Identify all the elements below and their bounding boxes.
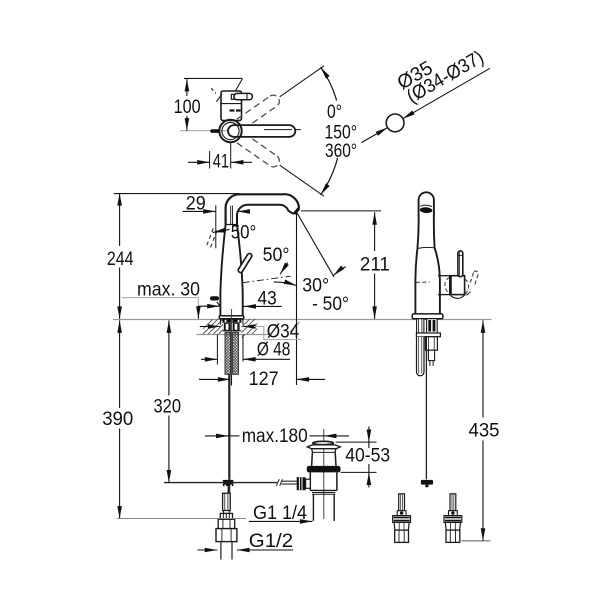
plan lever nub bbox=[231, 94, 234, 99]
plan body split line bbox=[221, 103, 242, 105]
side neck and body right edge bbox=[434, 215, 440, 314]
side ghost lever dashed bbox=[470, 271, 478, 284]
dim G1/2 right line bbox=[237, 549, 293, 551]
leader 50 deg second bbox=[280, 263, 288, 275]
dim 40-53 extension top bbox=[336, 441, 377, 443]
plan faucet body bbox=[221, 91, 242, 121]
dim 211 line upper bbox=[374, 212, 376, 251]
dim 40-53 top arrow bbox=[368, 427, 370, 443]
drain tailpipe bbox=[312, 494, 314, 521]
plan lever handle bbox=[234, 93, 252, 99]
dim Ø34 extension lines bbox=[219, 319, 221, 324]
dim 41 left line bbox=[188, 161, 210, 163]
dim max30 drop arrow bbox=[197, 306, 199, 319]
threaded shank right column bbox=[233, 332, 239, 374]
svg-text:- 50°: - 50° bbox=[312, 293, 349, 315]
supply hose hex big front G1/2 bbox=[216, 529, 237, 542]
side outlet dark ellipse bbox=[420, 207, 433, 214]
front pop-up knob link stroke bbox=[217, 302, 220, 306]
plan spout inner line bbox=[264, 129, 292, 131]
counter slab hatching right bbox=[242, 319, 258, 338]
plan spout capsule bbox=[228, 125, 295, 137]
svg-text:29: 29 bbox=[186, 193, 206, 215]
dim Ø48 left line bbox=[201, 358, 217, 360]
dim 127 left line bbox=[199, 378, 230, 380]
svg-text:41: 41 bbox=[213, 150, 229, 172]
outlet plumb line bbox=[296, 214, 298, 386]
drain rubber gasket bbox=[307, 466, 341, 473]
dim 29 left line bbox=[183, 210, 216, 212]
dim 41 right line bbox=[231, 161, 252, 163]
side body dash-dot marks bbox=[416, 281, 430, 283]
drain centerline bbox=[323, 429, 325, 519]
plan body cartridge dashes bbox=[230, 109, 235, 111]
drain cap bbox=[313, 441, 333, 444]
side neck seam bbox=[417, 247, 434, 248]
svg-text:Ø 48: Ø 48 bbox=[257, 338, 290, 360]
svg-text:G1/2: G1/2 bbox=[249, 530, 293, 552]
horizontal pop-up rod left part bbox=[164, 482, 277, 484]
svg-text:50°: 50° bbox=[263, 244, 290, 266]
counter hatch stroke right of plumb line bbox=[290, 322, 299, 332]
side mounting nut bbox=[425, 337, 437, 351]
dim 41 extension left bbox=[209, 151, 211, 169]
svg-text:127: 127 bbox=[249, 368, 279, 390]
leader Ø35 line lower left bbox=[362, 128, 388, 143]
dim G1 1/4 leader bbox=[249, 520, 313, 522]
dim 211 extension from outlet bbox=[301, 210, 381, 212]
supply hose tube front bbox=[223, 493, 231, 510]
pop-up rod clamp bbox=[223, 480, 233, 486]
dimension 100 line lower bbox=[186, 116, 188, 131]
rotation extension line lower bbox=[280, 165, 324, 196]
threaded shank left column bbox=[225, 332, 231, 374]
dim 40-53 extension bottom bbox=[341, 471, 377, 473]
plan pop-up knob bbox=[212, 129, 218, 133]
dim 29 extension left bbox=[215, 205, 217, 248]
side pop-up rod bbox=[425, 337, 427, 480]
plan ghost lever dashes bbox=[211, 88, 216, 93]
dim max180 line right of text bbox=[310, 435, 324, 437]
side handle boss ghost arc right dashed bbox=[465, 279, 469, 294]
svg-text:max. 30: max. 30 bbox=[137, 278, 200, 300]
drain bottom lines bbox=[310, 489, 337, 491]
dim 41 extension center bbox=[230, 143, 232, 169]
side ghost lever tick solid bbox=[467, 292, 471, 295]
side hose left bbox=[417, 337, 425, 376]
dim 244 line upper bbox=[119, 193, 121, 246]
dim 127 axis extension bbox=[230, 375, 232, 386]
drain flare sides bbox=[312, 449, 313, 453]
angle 30 deg arc right tail bbox=[333, 267, 345, 276]
drain ball-rod knob bbox=[297, 477, 306, 490]
counter top line gray bbox=[113, 319, 492, 321]
angle 30 deg arc left tail bbox=[274, 282, 297, 286]
svg-text:435: 435 bbox=[469, 420, 500, 442]
front riser inner hose lines bbox=[230, 206, 232, 225]
svg-text:max.180: max.180 bbox=[242, 425, 308, 447]
drain body seam bbox=[312, 451, 335, 453]
svg-text:211: 211 bbox=[360, 254, 390, 276]
side handle boss neck lines bbox=[438, 275, 450, 277]
svg-text:G1 1/4: G1 1/4 bbox=[253, 502, 307, 524]
front spout outer outline bbox=[226, 194, 299, 224]
pop-up rod stub below clamp bbox=[228, 486, 231, 493]
plan ghost lever solid part bbox=[216, 94, 222, 101]
mounting nut right bbox=[233, 323, 240, 331]
side handle boss block bbox=[450, 276, 465, 295]
front body cone left edge bbox=[220, 225, 225, 316]
side mounting column left bbox=[417, 319, 424, 333]
svg-text:40-53: 40-53 bbox=[345, 444, 390, 466]
valve axis dash-dot bbox=[243, 276, 291, 283]
dim 435 bottom reference line bbox=[461, 540, 490, 542]
dim max180 left arrow bbox=[205, 435, 229, 437]
dim 320 line upper bbox=[168, 320, 170, 395]
front spout inner outline bbox=[237, 205, 294, 225]
connector hose left bbox=[393, 494, 411, 543]
dim 390 line lower bbox=[119, 429, 121, 519]
leader Ø35 circle bbox=[386, 114, 404, 132]
mounting nut left bbox=[224, 323, 231, 331]
side handle boss ghost arc left dashed bbox=[445, 277, 450, 293]
rotation extension line upper bbox=[280, 66, 324, 97]
horizontal pop-up rod right part double line bbox=[282, 480, 297, 482]
dim max180 right arrow bbox=[324, 435, 349, 437]
faucet axis thin line bbox=[231, 309, 233, 385]
rotation arc with arrows bbox=[321, 67, 341, 131]
counter slab bottom line gray bbox=[197, 334, 271, 336]
side handle boss ghost arc bottom solid bbox=[451, 293, 467, 298]
side handle grip bbox=[458, 251, 463, 277]
dim 29 right line bbox=[237, 210, 250, 212]
front lever handle bbox=[237, 253, 252, 274]
side neck and body left edge bbox=[415, 215, 418, 314]
mounting washer bbox=[222, 319, 241, 323]
svg-text:244: 244 bbox=[107, 248, 134, 270]
pop-up rod front bbox=[228, 374, 230, 480]
dim 40-53 bottom arrow bbox=[368, 473, 370, 488]
connector hose right bbox=[444, 494, 462, 543]
side mounting plate bbox=[416, 333, 440, 337]
dim Ø48 right line bbox=[243, 358, 290, 360]
counter slab hatching left bbox=[203, 319, 223, 334]
dim 29 extension right bbox=[236, 213, 238, 224]
svg-text:50°: 50° bbox=[231, 222, 257, 244]
drain lower body sides bbox=[309, 472, 311, 490]
leader Ø35 line upper right bbox=[403, 68, 490, 119]
dim max180 line left of text bbox=[229, 435, 240, 437]
plan diagonal tick at ref line end bbox=[233, 79, 243, 95]
plan spout tick bbox=[296, 129, 302, 131]
dim max30 branch arrow to body bbox=[199, 305, 220, 307]
dim 211 line lower bbox=[374, 274, 376, 319]
front riser base joint line bbox=[226, 224, 237, 226]
svg-text:360°: 360° bbox=[325, 140, 357, 162]
ghost spout lower dashed bbox=[237, 133, 279, 167]
side spout capsule bbox=[419, 192, 434, 216]
svg-text:390: 390 bbox=[102, 408, 133, 430]
drain body sides bbox=[311, 452, 314, 466]
dim G1/2 left arrow bbox=[198, 549, 218, 551]
plan swivel circle inner bbox=[222, 122, 239, 139]
drain ball-rod neck bbox=[306, 479, 311, 488]
plan ref line top bbox=[184, 77, 243, 79]
dim 435 line upper bbox=[482, 320, 484, 417]
leader 50 deg first bbox=[213, 229, 230, 232]
front pop-up knob back bbox=[212, 296, 217, 300]
dim 390 bottom reference line bbox=[117, 518, 246, 520]
drain brim bbox=[307, 445, 340, 449]
white mask behind angle labels bbox=[322, 101, 362, 159]
dim 43 line bbox=[244, 305, 282, 307]
dim 127 right line bbox=[297, 378, 325, 380]
supply hose hex small front bbox=[218, 519, 235, 528]
side outlet seam bbox=[420, 205, 432, 206]
svg-text:0°: 0° bbox=[327, 101, 342, 123]
front spout outlet face bbox=[294, 208, 299, 214]
dim 320 line lower bbox=[168, 416, 170, 483]
front body cone right edge bbox=[237, 225, 243, 316]
front base flange bbox=[219, 316, 244, 319]
side mounting block below nut bbox=[428, 350, 434, 360]
dimension 100 line upper bbox=[186, 79, 188, 96]
mounting nut bottom line bbox=[223, 330, 242, 332]
dim max30 underline gray bbox=[122, 297, 199, 299]
front ghost lever dashes bbox=[207, 227, 218, 248]
side pop-up rod T-knob bbox=[421, 480, 433, 485]
outlet 30 deg diagonal bbox=[297, 212, 335, 277]
plan swivel circle outer bbox=[219, 120, 241, 142]
dim 40-53 middle segments bbox=[368, 442, 370, 448]
plan lever joint line bbox=[246, 94, 248, 100]
supply hose below front bbox=[220, 542, 222, 560]
dim Ø48 extension lines bbox=[216, 335, 218, 365]
dim 435 line lower bbox=[482, 441, 484, 541]
dim Ø34 elbow gray bbox=[254, 327, 302, 340]
dim max30 elbow gray bbox=[197, 298, 199, 306]
svg-text:43: 43 bbox=[258, 288, 277, 310]
supply hose rings front bbox=[224, 511, 230, 514]
plan centerline gray bbox=[180, 130, 231, 132]
side base plate bbox=[412, 314, 443, 319]
svg-text:100: 100 bbox=[174, 96, 201, 118]
dim Ø34 right line bbox=[243, 326, 254, 328]
side mounting column right bbox=[427, 319, 438, 333]
svg-text:320: 320 bbox=[154, 395, 182, 417]
dim 390 line upper bbox=[119, 320, 121, 408]
front top reference line bbox=[114, 193, 240, 195]
ghost spout upper dashed bbox=[237, 95, 279, 129]
supply hose collar front bbox=[220, 513, 232, 519]
dim Ø34 left line bbox=[200, 326, 221, 328]
dim 244 line lower bbox=[119, 268, 121, 319]
horizontal rod break ticks bbox=[276, 479, 279, 486]
